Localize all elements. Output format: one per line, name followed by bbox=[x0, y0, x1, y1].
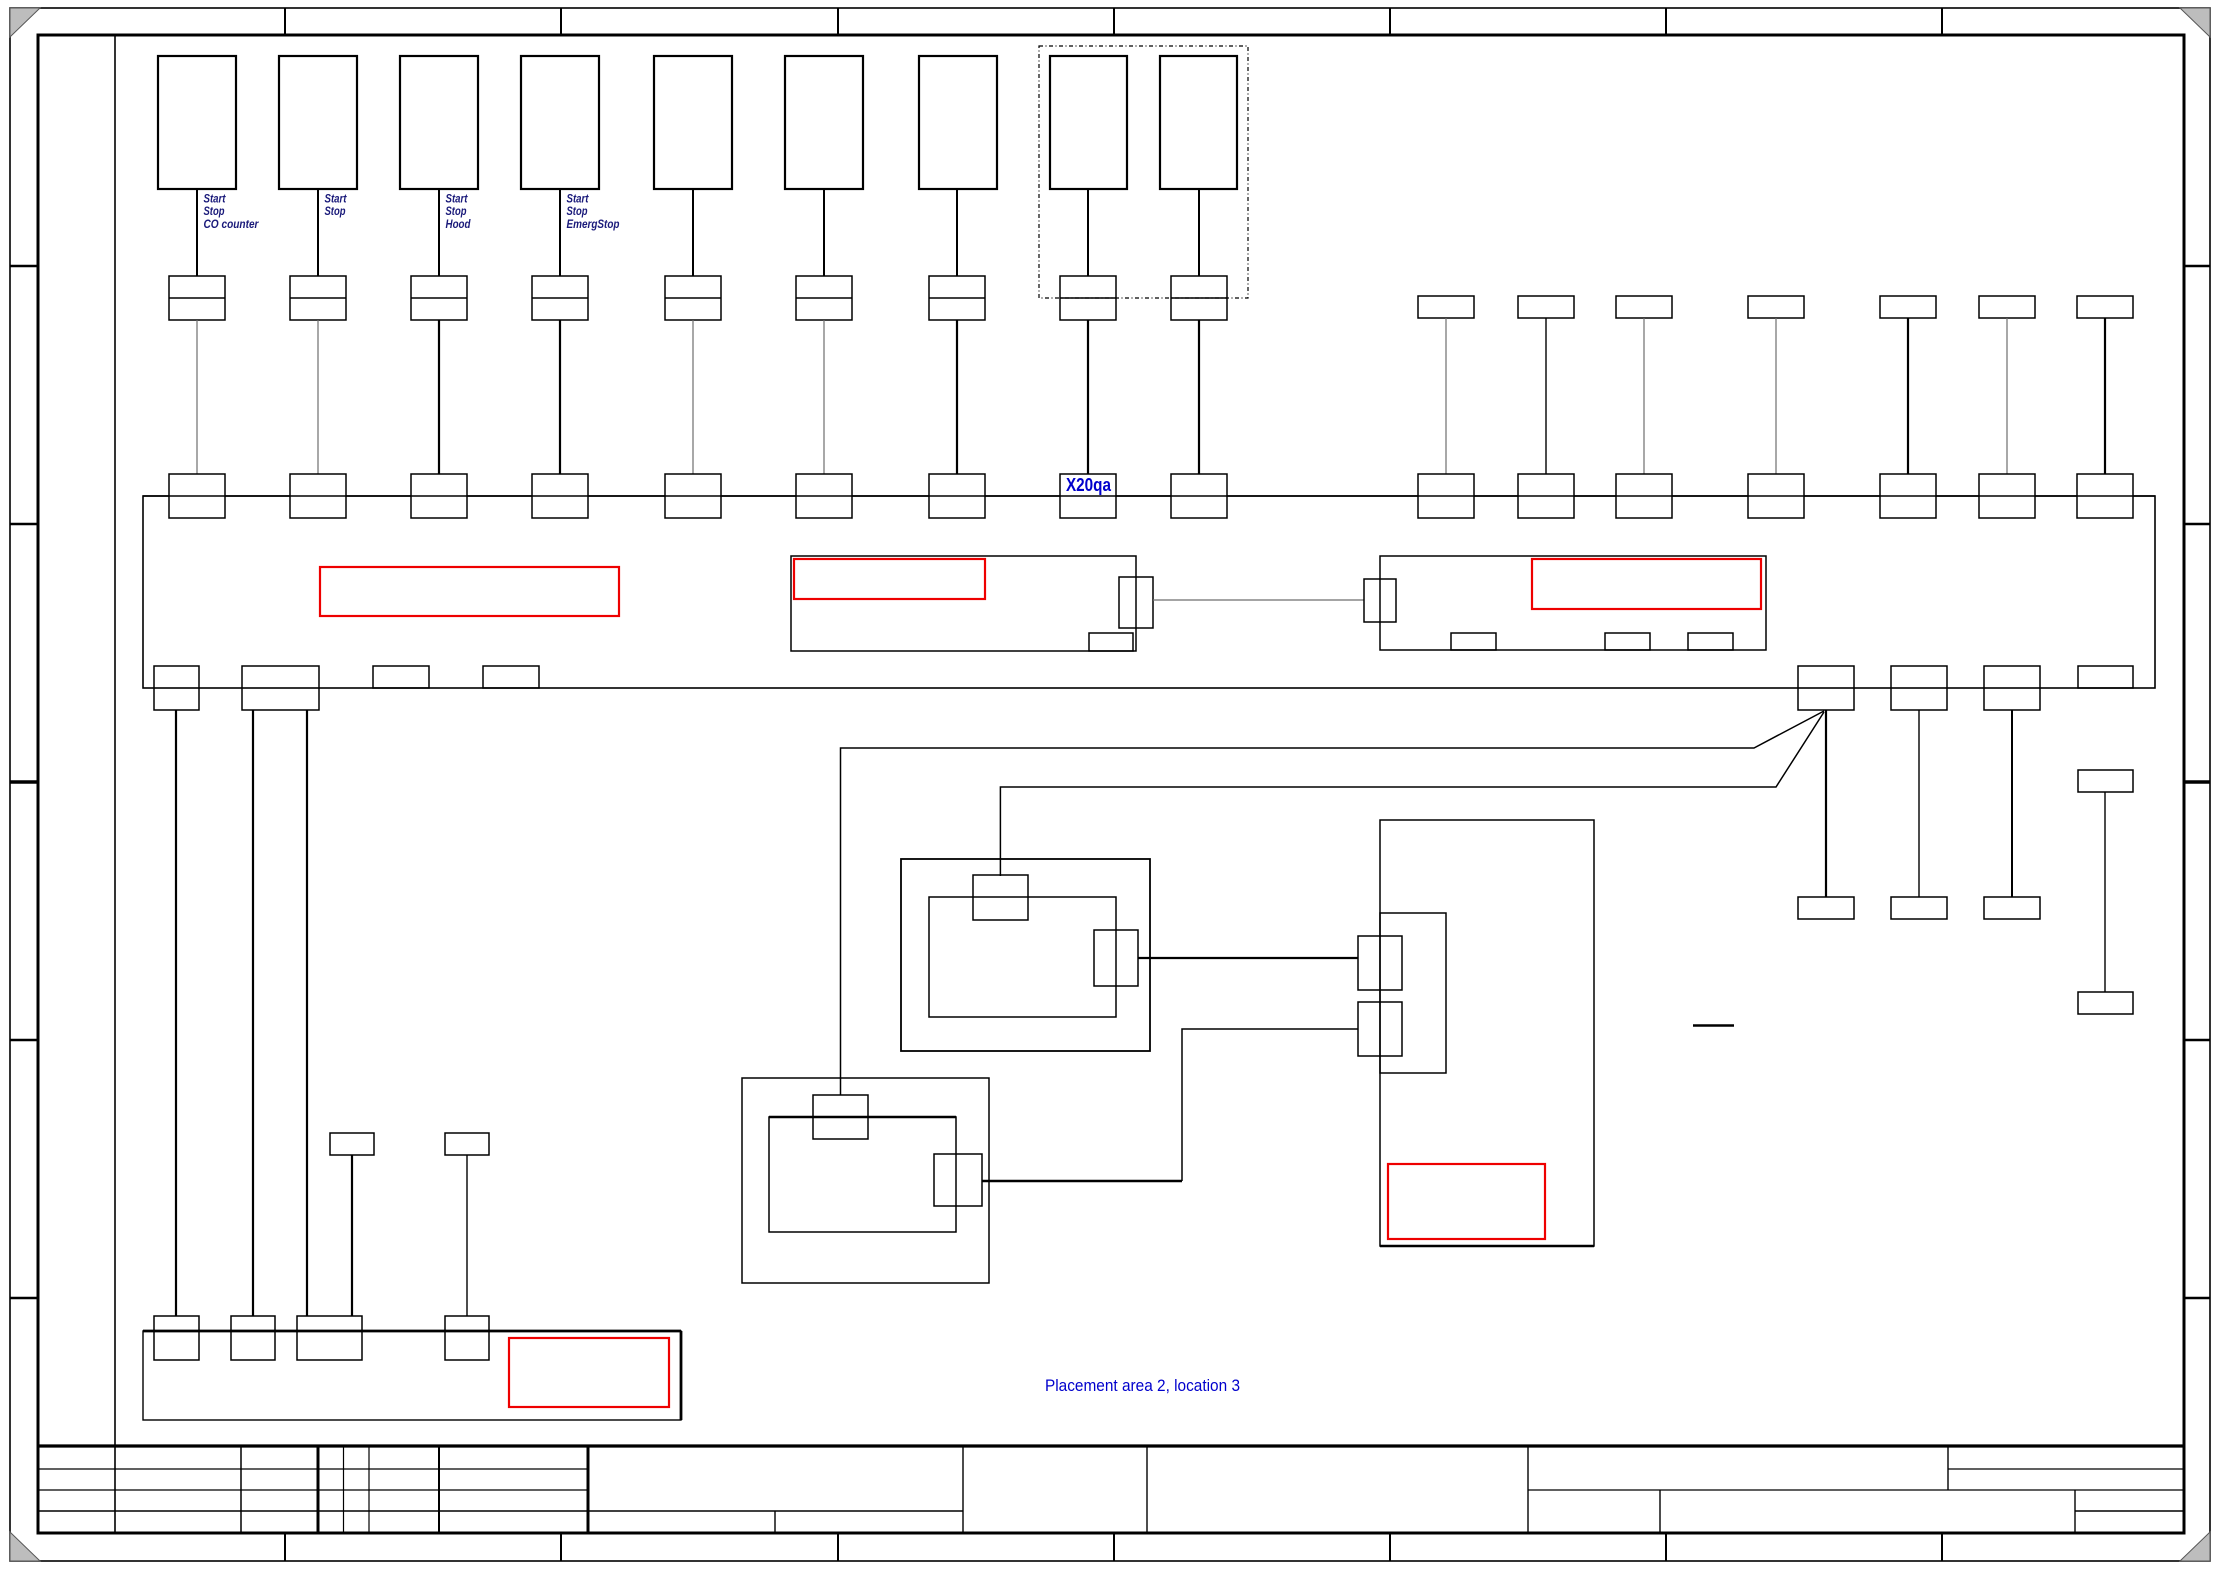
svg-text:CO counter: CO counter bbox=[204, 219, 259, 231]
svg-text:Stop: Stop bbox=[204, 206, 225, 218]
svg-text:Placement area 2, location 3: Placement area 2, location 3 bbox=[1045, 1376, 1240, 1395]
svg-text:Stop: Stop bbox=[446, 206, 467, 218]
svg-text:Start: Start bbox=[446, 193, 469, 205]
svg-text:X20qa: X20qa bbox=[1066, 475, 1112, 495]
svg-text:Start: Start bbox=[325, 193, 348, 205]
svg-text:Stop: Stop bbox=[325, 206, 346, 218]
svg-text:Hood: Hood bbox=[446, 219, 472, 231]
svg-text:Stop: Stop bbox=[567, 206, 588, 218]
svg-text:Start: Start bbox=[204, 193, 227, 205]
svg-text:Start: Start bbox=[567, 193, 590, 205]
svg-text:EmergStop: EmergStop bbox=[567, 219, 620, 231]
